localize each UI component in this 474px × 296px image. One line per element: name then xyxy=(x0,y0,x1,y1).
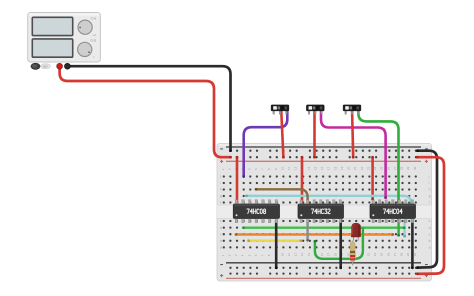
svg-text:CH2: CH2 xyxy=(90,39,96,43)
svg-text:14: 14 xyxy=(307,253,311,257)
svg-text:11: 11 xyxy=(287,253,291,256)
wire: green loop from 74HC32 pin3 to LED anode column xyxy=(315,228,363,259)
svg-text:d: d xyxy=(220,226,222,230)
svg-text:13: 13 xyxy=(300,253,304,257)
terminal positive (red) xyxy=(57,63,63,69)
svg-text:b: b xyxy=(429,239,431,243)
svg-text:25: 25 xyxy=(380,166,384,170)
svg-text:17: 17 xyxy=(327,253,331,257)
svg-text:22: 22 xyxy=(360,166,364,170)
wire: black ground 74HC04 pin7 to - rail xyxy=(411,220,414,268)
svg-text:V: V xyxy=(93,56,95,59)
wire: cyan short below 74HC04 xyxy=(403,221,405,236)
svg-text:10: 10 xyxy=(280,166,284,170)
svg-text:f: f xyxy=(429,201,430,205)
svg-text:12: 12 xyxy=(294,253,298,257)
svg-text:c: c xyxy=(429,232,431,236)
switch S2 xyxy=(306,105,324,114)
wire: power supply red lead to breadboard + rail xyxy=(60,66,231,157)
svg-text:j: j xyxy=(428,175,430,179)
wire: cyan from IC1 area to 74HC04 pin8 xyxy=(247,196,411,203)
wire: gray from 74HC32 pin2 down xyxy=(306,220,308,241)
svg-text:g: g xyxy=(429,194,431,198)
wire: orange row IC1 pin1 to 74HC04 pin4 xyxy=(236,233,393,235)
svg-text:15: 15 xyxy=(314,166,318,170)
svg-text:27: 27 xyxy=(393,166,397,170)
svg-text:10: 10 xyxy=(280,253,284,257)
wire: yellow row IC1 pin3 to 74HC32 pin1 xyxy=(249,239,301,241)
svg-text:24: 24 xyxy=(373,253,377,257)
svg-text:18: 18 xyxy=(333,253,337,257)
wire end caps xyxy=(229,149,232,152)
svg-text:18: 18 xyxy=(333,166,337,170)
svg-text:mA: mA xyxy=(93,34,97,37)
svg-text:e: e xyxy=(220,219,222,223)
svg-text:16: 16 xyxy=(320,166,324,170)
wire: green row IC1 pin2 to 74HC04 pin6 xyxy=(244,226,405,228)
svg-text:e: e xyxy=(429,219,431,223)
svg-text:g: g xyxy=(220,194,222,198)
svg-text:a: a xyxy=(429,246,431,250)
wire: green short below 74HC04 xyxy=(397,220,399,236)
svg-text:29: 29 xyxy=(406,253,410,257)
svg-text:j: j xyxy=(219,175,221,179)
svg-text:30: 30 xyxy=(413,166,417,170)
wire: red switch S2 to + rail xyxy=(313,112,316,158)
switch S1 xyxy=(271,105,289,114)
svg-text:23: 23 xyxy=(366,253,370,257)
wire: brown from IC1 pin11 to 74HC32 pin13 xyxy=(256,189,308,202)
svg-text:19: 19 xyxy=(340,166,344,170)
svg-text:23: 23 xyxy=(366,166,370,170)
svg-text:f: f xyxy=(220,201,221,205)
svg-text:12: 12 xyxy=(294,166,298,170)
wire: red VCC to 74HC04 pin14 xyxy=(371,157,374,199)
svg-text:OFF: OFF xyxy=(43,65,49,68)
svg-text:a: a xyxy=(220,246,222,250)
wire: red jumper top + rail to bottom + rail (right side) xyxy=(417,157,444,274)
resistor R1 xyxy=(350,241,355,266)
svg-text:28: 28 xyxy=(400,253,404,257)
wire: black jumper top - rail to bottom - rail (right side) xyxy=(418,151,438,268)
breadboard xyxy=(217,144,432,282)
svg-text:26: 26 xyxy=(386,253,390,257)
wire: purple from switch S1 to 74HC08 pin13 xyxy=(244,112,288,177)
IC U1 74HC08 xyxy=(233,200,279,223)
svg-text:CH1: CH1 xyxy=(91,17,97,21)
svg-text:d: d xyxy=(429,226,431,230)
svg-text:20: 20 xyxy=(347,166,351,170)
svg-text:21: 21 xyxy=(353,166,357,170)
svg-text:h: h xyxy=(220,188,222,192)
wire: red switch S3 to + rail xyxy=(352,112,353,158)
wire: red switch S1 to + rail xyxy=(281,112,283,158)
IC U3 74HC04 xyxy=(370,200,416,223)
IC U2 74HC32 xyxy=(298,200,344,223)
terminal negative (black) xyxy=(65,63,71,69)
svg-text:11: 11 xyxy=(287,167,291,170)
LED D1 (red) xyxy=(351,223,361,241)
switch S3 xyxy=(343,105,361,114)
wire: magenta from switch S2 to 74HC04 pin12 xyxy=(321,112,386,198)
power supply PS1 xyxy=(28,13,101,70)
wire: green from switch S3 to 74HC04 pin10 xyxy=(358,112,398,203)
svg-text:14: 14 xyxy=(307,166,311,170)
svg-text:29: 29 xyxy=(406,166,410,170)
wire: red VCC to 74HC32 pin14 xyxy=(301,157,304,202)
wire: red VCC to 74HC08 pin14 xyxy=(236,157,239,202)
svg-text:h: h xyxy=(429,188,431,192)
svg-text:25: 25 xyxy=(380,253,384,257)
wire: power supply black lead to breadboard - rail xyxy=(67,66,230,151)
svg-text:c: c xyxy=(220,232,222,236)
svg-text:27: 27 xyxy=(393,253,397,257)
svg-text:17: 17 xyxy=(327,166,331,170)
wire: black ground 74HC32 pin7 to - rail xyxy=(339,220,342,268)
svg-text:28: 28 xyxy=(400,166,404,170)
svg-text:b: b xyxy=(220,239,222,243)
svg-text:16: 16 xyxy=(320,253,324,257)
wire: black ground 74HC08 pin7 to - rail xyxy=(275,220,278,268)
